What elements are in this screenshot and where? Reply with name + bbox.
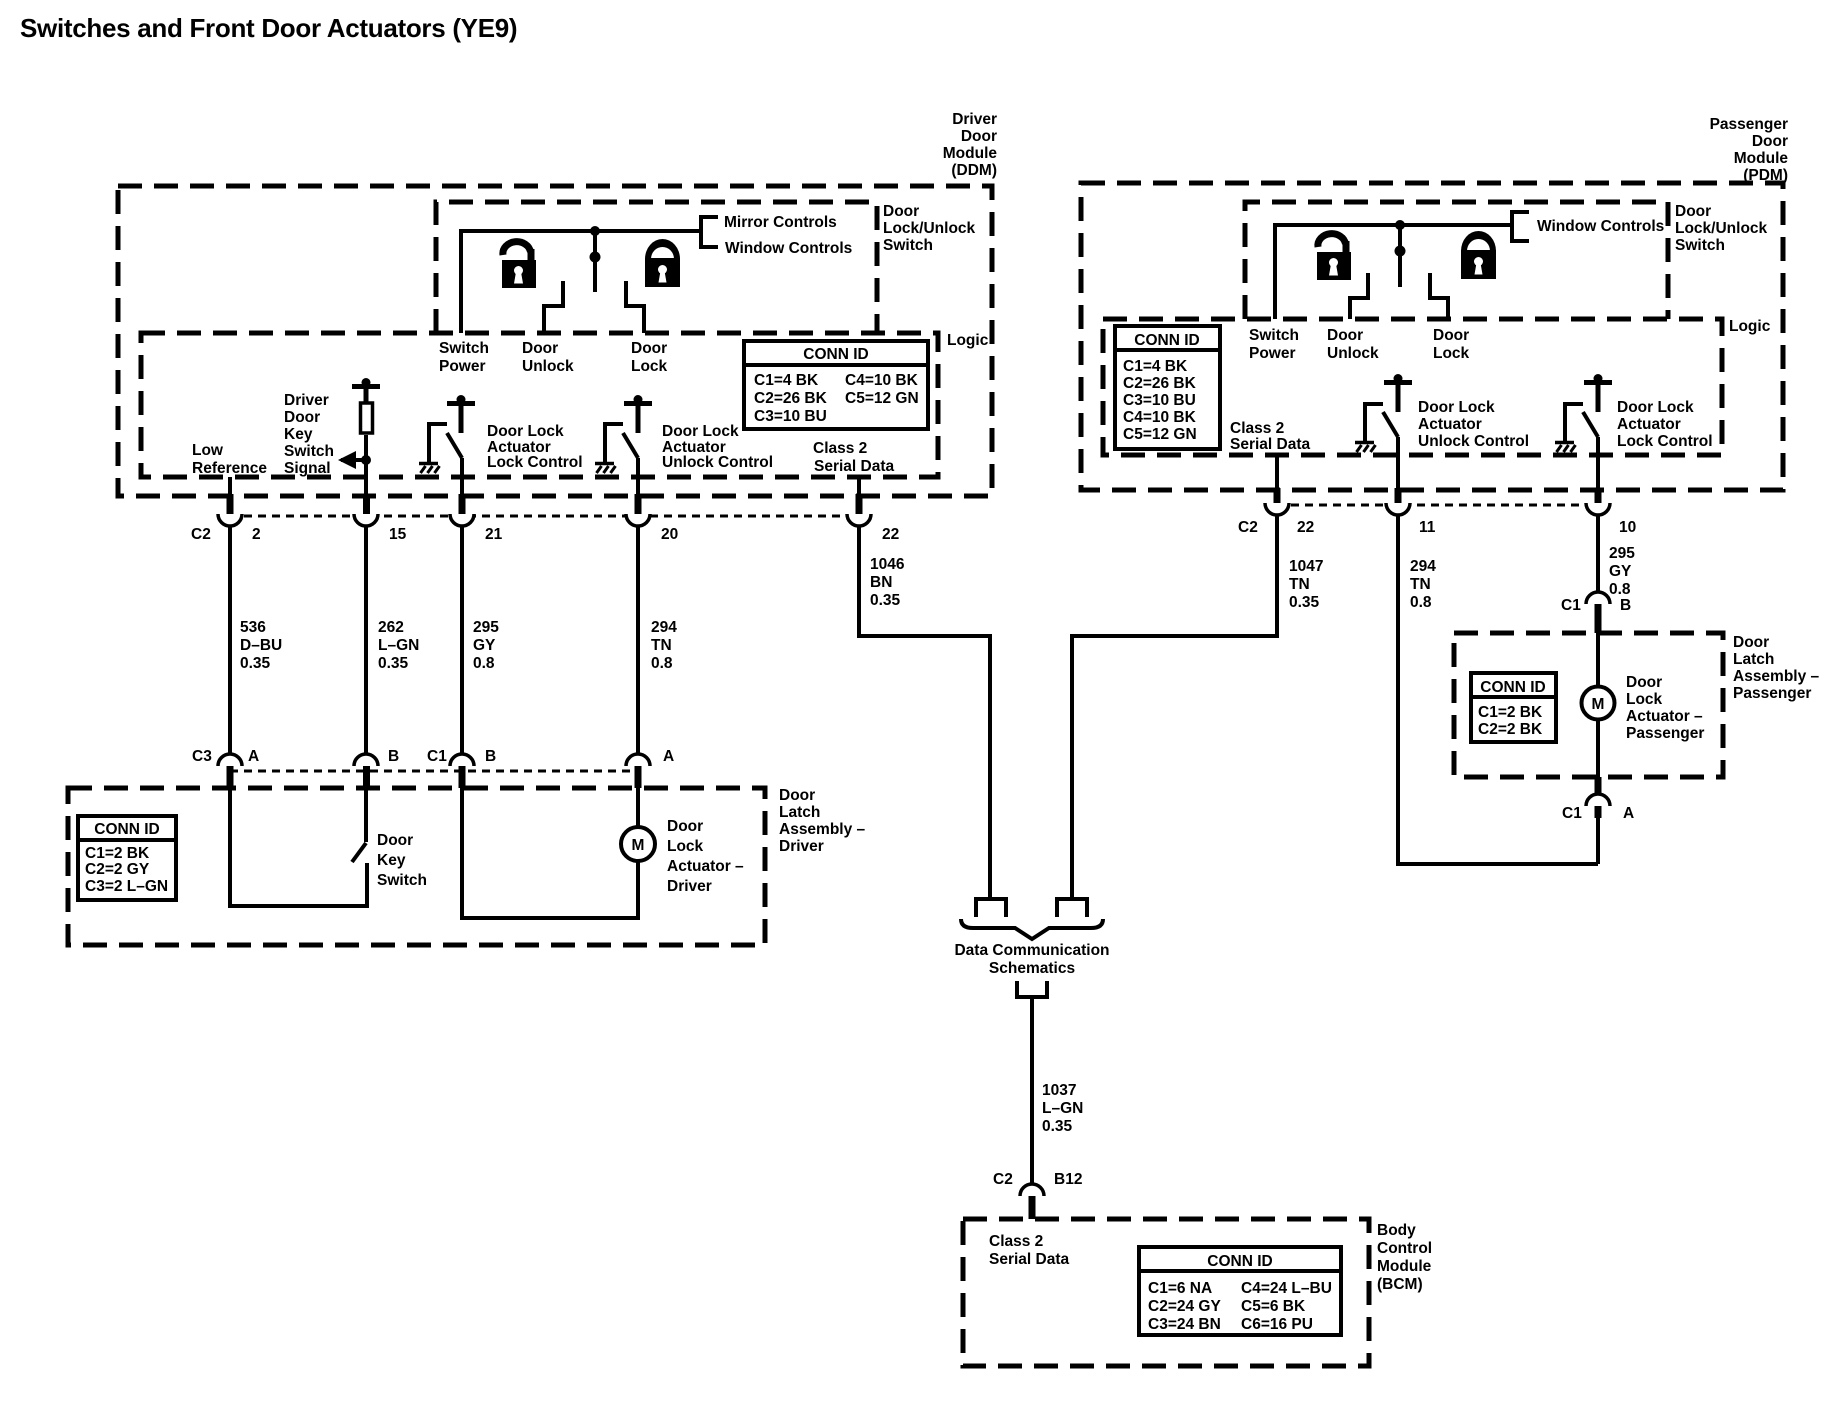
connector C2 pin22 PDM <box>1265 503 1289 515</box>
connector C1 pinB passenger <box>1586 592 1610 604</box>
bracket mirror/window controls DDM <box>701 217 718 247</box>
connector stub pin11 PDM <box>1395 488 1402 505</box>
svg-text:Lock/Unlock: Lock/Unlock <box>883 220 976 237</box>
svg-text:C2=26 BK: C2=26 BK <box>754 390 828 407</box>
wire unlock switch throw PDM <box>1350 273 1368 319</box>
svg-text:C5=12 GN: C5=12 GN <box>845 390 919 407</box>
svg-text:Switch: Switch <box>1675 237 1725 254</box>
svg-text:Class 2: Class 2 <box>989 1233 1043 1250</box>
svg-text:Logic: Logic <box>1729 318 1771 335</box>
svg-text:M: M <box>1592 696 1605 713</box>
conn id table DDM <box>744 341 928 429</box>
svg-text:0.8: 0.8 <box>473 655 495 672</box>
connector C2 pin2 <box>218 514 242 526</box>
svg-text:Power: Power <box>1249 345 1296 362</box>
connector pinB key switch <box>354 754 378 766</box>
svg-text:Reference: Reference <box>192 460 267 477</box>
wire 1037 L-GN <box>1030 997 1034 1185</box>
svg-text:11: 11 <box>1419 519 1436 536</box>
wire key switch feed <box>364 788 368 842</box>
svg-text:C1: C1 <box>1561 597 1581 614</box>
svg-text:0.8: 0.8 <box>1609 581 1631 598</box>
svg-text:B: B <box>1620 597 1631 614</box>
wire 1047 TN class2 <box>1072 514 1277 899</box>
svg-text:Window Controls: Window Controls <box>1537 218 1664 235</box>
svg-text:Door: Door <box>961 128 997 145</box>
wire unlock switch throw DDM <box>544 281 563 333</box>
svg-text:C4=10 BK: C4=10 BK <box>1123 409 1197 426</box>
svg-text:Lock/Unlock: Lock/Unlock <box>1675 220 1768 237</box>
svg-text:C3=10 BU: C3=10 BU <box>1123 392 1196 409</box>
svg-text:0.35: 0.35 <box>870 592 901 609</box>
wire lock switch throw DDM <box>626 281 644 333</box>
svg-text:Door Lock: Door Lock <box>1418 399 1495 416</box>
wire 1046 BN class2 <box>859 525 990 899</box>
wire key switch loop <box>230 788 367 906</box>
svg-text:C3=24 BN: C3=24 BN <box>1148 1316 1221 1333</box>
connector pinA actuator <box>626 754 650 766</box>
wire pin10 down <box>1596 437 1600 501</box>
svg-text:Key: Key <box>284 426 313 443</box>
svg-text:M: M <box>632 837 645 854</box>
svg-text:C6=16 PU: C6=16 PU <box>1241 1316 1313 1333</box>
svg-text:L–GN: L–GN <box>378 637 419 654</box>
wire switch common pole PDM <box>1398 225 1402 287</box>
wire lock switch throw PDM <box>1430 273 1448 319</box>
svg-text:Door: Door <box>1626 674 1662 691</box>
svg-text:L–GN: L–GN <box>1042 1100 1083 1117</box>
connector stub pin22 <box>856 494 863 515</box>
svg-text:Latch: Latch <box>1733 651 1774 668</box>
wire pin21 down <box>460 458 464 512</box>
svg-text:(PDM): (PDM) <box>1743 167 1788 184</box>
svg-text:TN: TN <box>1289 576 1310 593</box>
connector stub pin22 PDM <box>1274 488 1281 505</box>
svg-text:Switch: Switch <box>883 237 933 254</box>
resistor driver door key switch <box>361 403 373 433</box>
connector C3 pinA driver latch <box>218 754 242 766</box>
svg-text:Latch: Latch <box>779 804 820 821</box>
svg-text:Unlock: Unlock <box>1327 345 1379 362</box>
svg-text:(BCM): (BCM) <box>1377 1276 1423 1293</box>
wire actuator feed passenger <box>1596 633 1600 687</box>
svg-text:20: 20 <box>661 526 678 543</box>
svg-text:294: 294 <box>651 619 677 636</box>
svg-text:10: 10 <box>1619 519 1636 536</box>
connector bracket left datacomm <box>976 899 1006 917</box>
wire pin15 down <box>364 460 368 512</box>
ground unlock control PDM <box>1355 443 1376 453</box>
svg-text:C2: C2 <box>993 1171 1013 1188</box>
svg-text:Module: Module <box>1734 150 1789 167</box>
motor door lock actuator driver <box>621 827 655 861</box>
svg-text:A: A <box>1623 805 1634 822</box>
svg-text:Door: Door <box>1733 634 1769 651</box>
svg-text:A: A <box>248 748 259 765</box>
svg-text:B: B <box>485 748 496 765</box>
svg-text:Switches and Front Door Actuat: Switches and Front Door Actuators (YE9) <box>20 13 517 43</box>
wire switch rail PDM <box>1275 225 1512 319</box>
svg-text:1037: 1037 <box>1042 1082 1076 1099</box>
svg-text:1047: 1047 <box>1289 558 1323 575</box>
svg-text:Driver: Driver <box>667 878 712 895</box>
terminal tbar lock control PDM <box>1584 374 1612 385</box>
connector stub pin2 <box>227 494 234 515</box>
svg-text:295: 295 <box>473 619 499 636</box>
svg-text:Passenger: Passenger <box>1626 725 1704 742</box>
svg-text:Actuator: Actuator <box>1617 416 1681 433</box>
svg-text:0.35: 0.35 <box>240 655 271 672</box>
padlock unlock icon DDM <box>499 242 537 288</box>
wire pin22 down <box>857 477 861 512</box>
connector stub pin21 <box>459 494 466 515</box>
svg-text:Lock: Lock <box>1626 691 1663 708</box>
connector stub pin15 <box>363 494 370 515</box>
terminal tbar unlock control DDM <box>624 395 652 406</box>
svg-text:0.35: 0.35 <box>1289 594 1320 611</box>
connector C2 pin22 <box>847 514 871 526</box>
svg-text:GY: GY <box>473 637 496 654</box>
svg-text:2: 2 <box>252 526 261 543</box>
svg-text:Driver: Driver <box>779 838 824 855</box>
svg-text:1046: 1046 <box>870 556 905 573</box>
bracket window controls PDM <box>1512 212 1529 241</box>
wire 294 TN driver <box>636 525 640 753</box>
svg-text:0.8: 0.8 <box>1410 594 1432 611</box>
svg-text:C2=26 BK: C2=26 BK <box>1123 375 1197 392</box>
connector C1 pinA passenger <box>1586 794 1610 806</box>
svg-text:Serial Data: Serial Data <box>989 1251 1070 1268</box>
switch door lock actuator unlock control DDM <box>605 424 623 463</box>
svg-text:C5=12 GN: C5=12 GN <box>1123 426 1197 443</box>
ground unlock control DDM <box>595 464 616 474</box>
svg-text:Door: Door <box>883 203 919 220</box>
svg-text:Door: Door <box>1752 133 1788 150</box>
svg-text:15: 15 <box>389 526 407 543</box>
svg-text:D–BU: D–BU <box>240 637 282 654</box>
svg-text:Class 2: Class 2 <box>1230 420 1284 437</box>
svg-text:Serial Data: Serial Data <box>1230 436 1311 453</box>
svg-text:TN: TN <box>1410 576 1431 593</box>
svg-text:Door Lock: Door Lock <box>487 423 564 440</box>
svg-text:C3=10 BU: C3=10 BU <box>754 408 827 425</box>
svg-text:Class 2: Class 2 <box>813 440 867 457</box>
connector C2 pin21 <box>450 514 474 526</box>
svg-text:Power: Power <box>439 358 486 375</box>
svg-text:Door: Door <box>631 340 667 357</box>
svg-text:0.8: 0.8 <box>651 655 673 672</box>
svg-text:Door: Door <box>284 409 320 426</box>
svg-text:C1=4 BK: C1=4 BK <box>1123 358 1188 375</box>
svg-text:Unlock: Unlock <box>522 358 574 375</box>
svg-text:Door: Door <box>667 818 703 835</box>
svg-text:Door: Door <box>377 832 413 849</box>
wire actuator feed driver <box>636 788 640 827</box>
logic box DDM <box>141 333 938 477</box>
svg-text:Passenger: Passenger <box>1710 116 1788 133</box>
wire 536 D-BU <box>228 525 232 753</box>
svg-text:C1=6 NA: C1=6 NA <box>1148 1280 1212 1297</box>
svg-text:Unlock Control: Unlock Control <box>1418 433 1529 450</box>
svg-text:C2=2 GY: C2=2 GY <box>85 861 150 878</box>
conn id table BCM <box>1139 1247 1341 1335</box>
switch door key <box>352 843 366 862</box>
motor door lock actuator passenger <box>1582 687 1615 720</box>
switch door lock actuator lock control PDM <box>1565 404 1583 442</box>
svg-text:C3: C3 <box>192 748 212 765</box>
wire actuator loop driver <box>462 788 638 918</box>
svg-text:Low: Low <box>192 442 224 459</box>
svg-text:C1: C1 <box>1562 805 1582 822</box>
svg-text:Actuator: Actuator <box>1418 416 1482 433</box>
svg-text:Door Lock: Door Lock <box>1617 399 1694 416</box>
brace datacomm <box>961 919 1103 939</box>
connector C2 pinB12 BCM <box>1020 1184 1044 1196</box>
svg-text:TN: TN <box>651 637 672 654</box>
svg-text:Door: Door <box>1327 327 1363 344</box>
svg-text:Switch: Switch <box>284 443 334 460</box>
connector pin10 PDM <box>1586 503 1610 515</box>
svg-text:Unlock Control: Unlock Control <box>662 454 773 471</box>
svg-text:Lock: Lock <box>667 838 704 855</box>
svg-text:C2: C2 <box>1238 519 1258 536</box>
conn id table passenger latch <box>1471 673 1556 742</box>
svg-text:(DDM): (DDM) <box>951 162 997 179</box>
module box DDM <box>118 186 992 496</box>
svg-text:0.35: 0.35 <box>378 655 409 672</box>
switch box Door Lock/Unlock Switch PDM <box>1245 202 1668 319</box>
svg-text:C1: C1 <box>427 748 447 765</box>
wire actuator out passenger <box>1596 719 1600 777</box>
svg-text:295: 295 <box>1609 545 1635 562</box>
svg-text:C1=4 BK: C1=4 BK <box>754 372 819 389</box>
svg-text:Door: Door <box>522 340 558 357</box>
svg-text:Key: Key <box>377 852 406 869</box>
svg-text:Serial Data: Serial Data <box>814 458 895 475</box>
wire 295 GY passenger <box>1596 514 1600 593</box>
connector pin11 PDM <box>1386 503 1410 515</box>
svg-text:Assembly –: Assembly – <box>779 821 866 838</box>
svg-text:Lock Control: Lock Control <box>1617 433 1713 450</box>
switch door lock actuator unlock control PDM <box>1365 404 1383 442</box>
wire low reference pin2 <box>228 477 232 512</box>
svg-text:Driver: Driver <box>952 111 997 128</box>
wire pin22 PDM down <box>1275 455 1279 501</box>
svg-text:Assembly –: Assembly – <box>1733 668 1820 685</box>
svg-text:C3=2 L–GN: C3=2 L–GN <box>85 878 168 895</box>
terminal tbar resistor DDM <box>352 378 380 389</box>
connector bracket lower datacomm <box>1017 981 1047 997</box>
svg-text:C1=2 BK: C1=2 BK <box>1478 704 1543 721</box>
wire pin20 down <box>636 458 640 512</box>
connector dashed line driver latch <box>230 770 638 773</box>
conn id table driver latch <box>78 816 176 900</box>
wire 262 L-GN <box>364 525 368 753</box>
svg-text:Data Communication: Data Communication <box>954 942 1109 959</box>
node key switch signal junction <box>361 455 371 465</box>
svg-text:C2=24 GY: C2=24 GY <box>1148 1298 1221 1315</box>
svg-text:21: 21 <box>485 526 503 543</box>
svg-text:B12: B12 <box>1054 1171 1082 1188</box>
svg-text:CONN ID: CONN ID <box>1207 1253 1272 1270</box>
svg-text:GY: GY <box>1609 563 1632 580</box>
svg-text:Module: Module <box>943 145 998 162</box>
svg-text:Driver: Driver <box>284 392 329 409</box>
wire switch common pole DDM <box>593 231 597 292</box>
svg-text:22: 22 <box>1297 519 1314 536</box>
svg-text:Door Lock: Door Lock <box>662 423 739 440</box>
padlock lock icon PDM <box>1461 231 1496 279</box>
svg-text:CONN ID: CONN ID <box>1134 332 1199 349</box>
connector dashed line DDM C2 <box>230 515 859 518</box>
svg-text:Lock: Lock <box>631 358 668 375</box>
svg-text:Door: Door <box>779 787 815 804</box>
node switch pole PDM <box>1395 246 1406 257</box>
module box BCM <box>963 1219 1369 1366</box>
padlock unlock icon PDM <box>1314 234 1352 280</box>
svg-text:Door: Door <box>1433 327 1469 344</box>
connector bracket right datacomm <box>1057 899 1087 917</box>
latch box driver <box>68 788 765 945</box>
wire resistor to junction <box>364 435 368 460</box>
svg-text:C4=10 BK: C4=10 BK <box>845 372 919 389</box>
wire pin11 down <box>1396 437 1400 501</box>
svg-text:Mirror Controls: Mirror Controls <box>724 214 837 231</box>
svg-text:Logic: Logic <box>947 332 989 349</box>
node switch pole DDM <box>590 252 601 263</box>
conn id table PDM <box>1115 326 1220 449</box>
terminal tbar unlock control PDM <box>1384 374 1412 385</box>
svg-text:C1=2 BK: C1=2 BK <box>85 845 150 862</box>
svg-text:C5=6 BK: C5=6 BK <box>1241 1298 1306 1315</box>
svg-text:Control: Control <box>1377 1240 1432 1257</box>
svg-text:C4=24 L–BU: C4=24 L–BU <box>1241 1280 1332 1297</box>
svg-text:Window Controls: Window Controls <box>725 240 852 257</box>
terminal tbar lock control DDM <box>447 395 475 406</box>
svg-text:Body: Body <box>1377 1222 1416 1239</box>
connector stub pin20 <box>635 494 642 515</box>
switch box Door Lock/Unlock Switch DDM <box>436 202 877 333</box>
svg-text:Signal: Signal <box>284 460 331 477</box>
connector C1 pinB actuator <box>450 754 474 766</box>
svg-text:B: B <box>388 748 399 765</box>
wire 294 TN passenger <box>1398 514 1598 864</box>
ground lock control DDM <box>419 464 440 474</box>
svg-text:22: 22 <box>882 526 899 543</box>
svg-text:CONN ID: CONN ID <box>1480 679 1545 696</box>
svg-text:294: 294 <box>1410 558 1436 575</box>
svg-text:0.35: 0.35 <box>1042 1118 1073 1135</box>
wire pinA to rail passenger <box>1596 818 1600 864</box>
svg-text:CONN ID: CONN ID <box>94 821 159 838</box>
wire switch rail DDM <box>461 231 701 333</box>
svg-text:BN: BN <box>870 574 892 591</box>
node junction rail PDM <box>1395 220 1405 230</box>
svg-text:Schematics: Schematics <box>989 960 1075 977</box>
svg-text:Door: Door <box>1675 203 1711 220</box>
svg-text:Lock: Lock <box>1433 345 1470 362</box>
svg-text:CONN ID: CONN ID <box>803 346 868 363</box>
connector C2 pin15 <box>354 514 378 526</box>
connector C2 pin20 <box>626 514 650 526</box>
svg-text:Passenger: Passenger <box>1733 685 1811 702</box>
svg-text:Module: Module <box>1377 1258 1432 1275</box>
logic box PDM <box>1103 319 1722 455</box>
svg-text:Actuator –: Actuator – <box>667 858 744 875</box>
node junction rail DDM <box>590 226 600 236</box>
svg-text:C2=2 BK: C2=2 BK <box>1478 721 1543 738</box>
latch box passenger <box>1454 633 1723 777</box>
module box PDM <box>1081 183 1783 490</box>
connector stub pin10 PDM <box>1595 488 1602 505</box>
arrow key switch signal <box>341 458 367 462</box>
wire 295 GY driver <box>460 525 464 753</box>
svg-text:536: 536 <box>240 619 266 636</box>
connector dashed line PDM C2 <box>1277 504 1598 507</box>
padlock lock icon DDM <box>645 239 680 287</box>
svg-text:Lock Control: Lock Control <box>487 454 583 471</box>
svg-text:Switch: Switch <box>377 872 427 889</box>
svg-text:A: A <box>663 748 674 765</box>
svg-text:Switch: Switch <box>1249 327 1299 344</box>
svg-text:Switch: Switch <box>439 340 489 357</box>
ground lock control PDM <box>1555 443 1576 453</box>
svg-text:Actuator –: Actuator – <box>1626 708 1703 725</box>
switch door lock actuator lock control DDM <box>429 424 447 463</box>
svg-text:262: 262 <box>378 619 404 636</box>
svg-text:C2: C2 <box>191 526 211 543</box>
